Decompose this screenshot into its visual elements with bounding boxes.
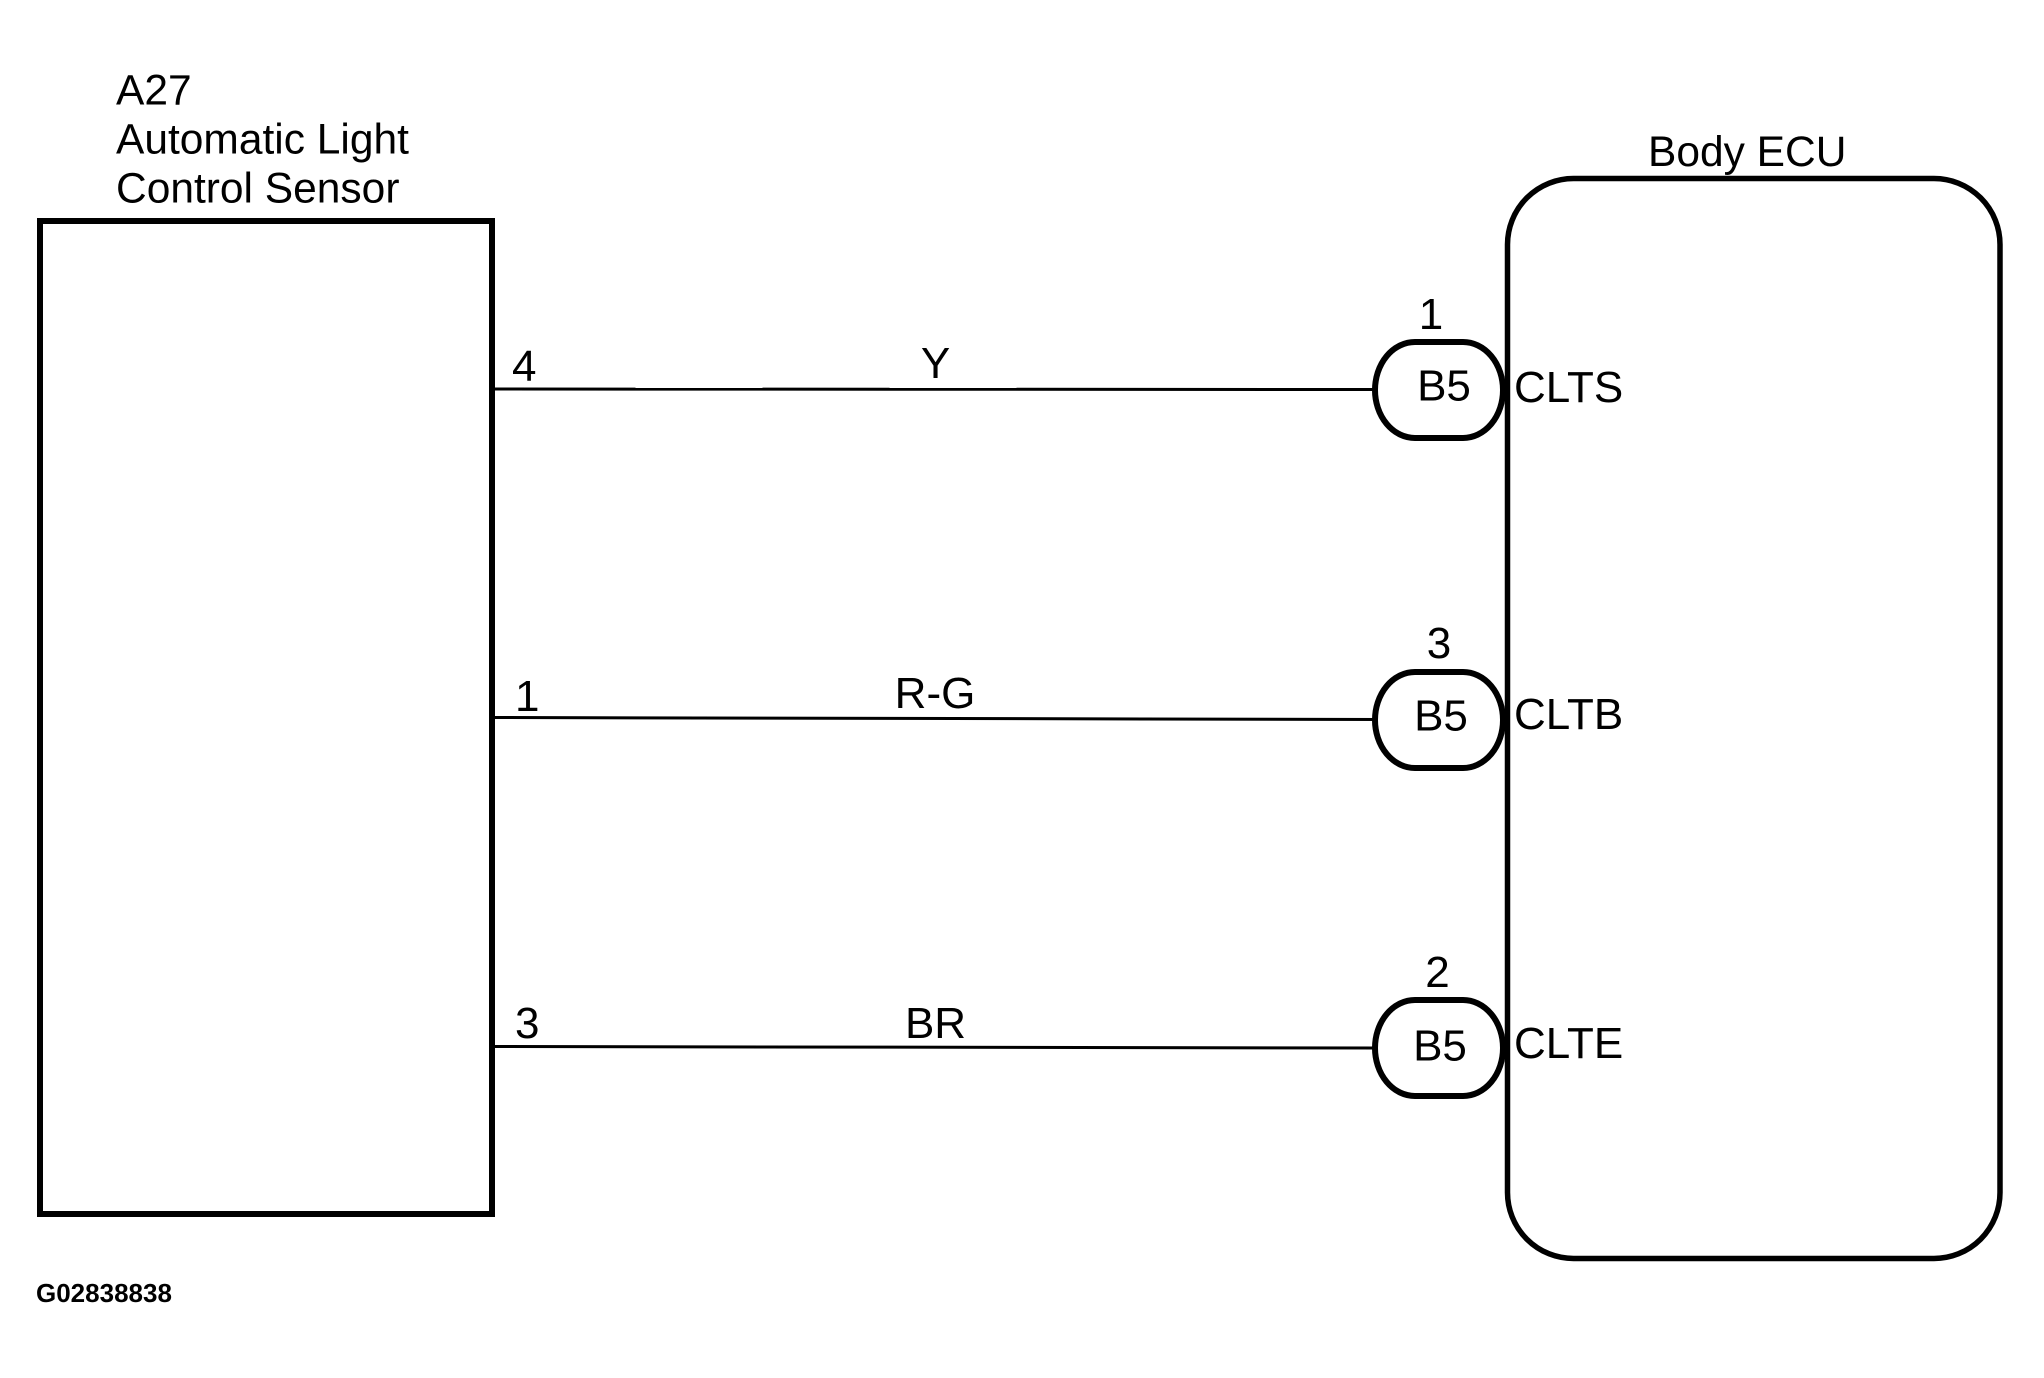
- svg-text:Automatic Light: Automatic Light: [116, 117, 409, 164]
- svg-text:G02838838: G02838838: [36, 1278, 172, 1308]
- svg-text:CLTS: CLTS: [1514, 363, 1623, 412]
- svg-text:B5: B5: [1417, 362, 1471, 411]
- svg-text:B5: B5: [1414, 692, 1468, 741]
- svg-text:3: 3: [1427, 619, 1451, 668]
- svg-text:Control Sensor: Control Sensor: [116, 166, 399, 213]
- svg-text:4: 4: [512, 342, 536, 391]
- svg-text:2: 2: [1425, 948, 1449, 997]
- svg-text:3: 3: [515, 999, 539, 1048]
- svg-text:Y: Y: [921, 339, 950, 388]
- svg-text:R-G: R-G: [895, 669, 976, 718]
- svg-text:B5: B5: [1413, 1022, 1467, 1071]
- svg-text:Body ECU: Body ECU: [1648, 129, 1846, 176]
- svg-text:BR: BR: [905, 999, 966, 1048]
- svg-text:1: 1: [515, 672, 539, 721]
- svg-text:CLTE: CLTE: [1514, 1019, 1623, 1068]
- svg-text:1: 1: [1419, 290, 1443, 339]
- svg-text:CLTB: CLTB: [1514, 690, 1623, 739]
- svg-text:A27: A27: [116, 68, 192, 115]
